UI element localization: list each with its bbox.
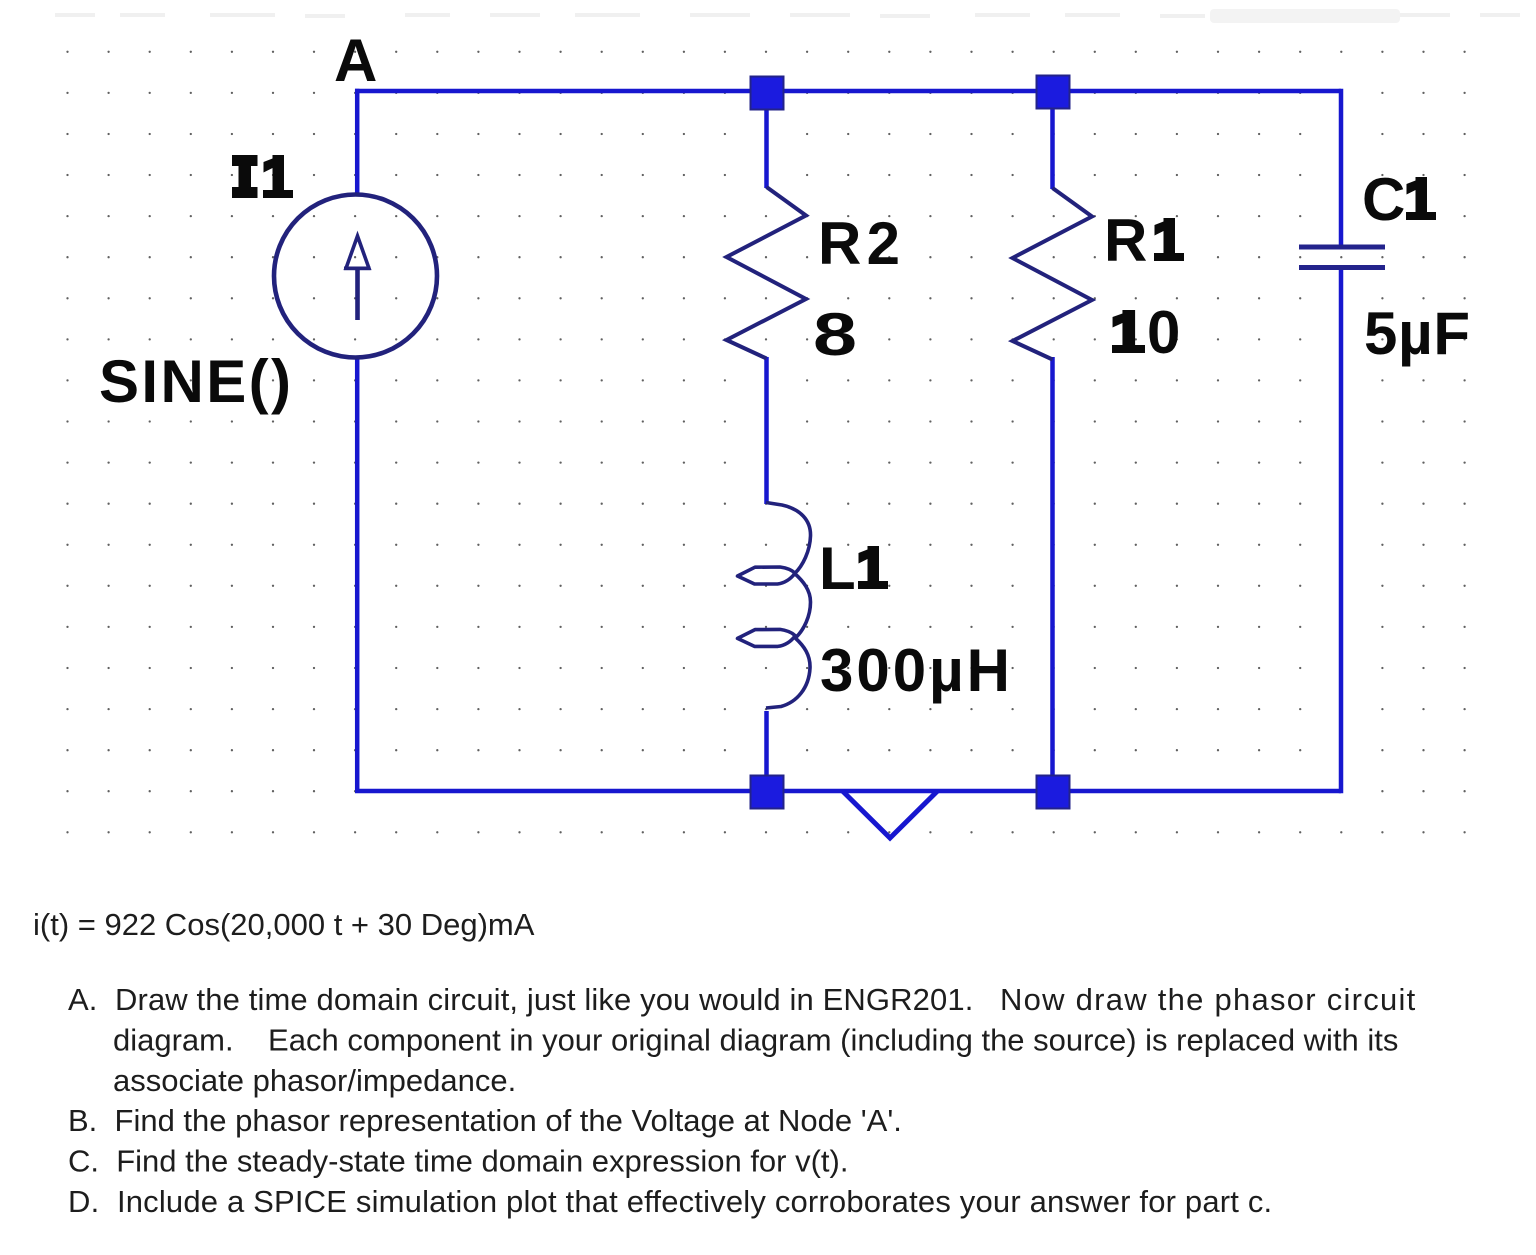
- junction node A / R1 top: [1037, 76, 1070, 109]
- svg-text:A. Draw the time domain circu: A. Draw the time domain circuit, just li…: [68, 982, 973, 1017]
- resistor R2 zigzag: [727, 187, 807, 359]
- label R2: [818, 210, 900, 277]
- svg-text:C: C: [1362, 166, 1405, 233]
- question item A line 1: [68, 982, 1417, 1017]
- wire: C1 top lead: [1339, 89, 1344, 245]
- svg-text:C. Find the steady-state time: C. Find the steady-state time domain exp…: [68, 1144, 848, 1179]
- resistor R1 zigzag: [1013, 188, 1093, 360]
- label L1: [819, 535, 888, 602]
- junction ground net / L1 bottom: [751, 776, 784, 809]
- svg-text:R2: R2: [818, 210, 900, 277]
- question item B: [68, 1103, 902, 1138]
- svg-text:5µF: 5µF: [1364, 300, 1470, 367]
- label R2 value 8: [813, 301, 857, 368]
- equation text i(t): [33, 907, 535, 942]
- wire: bottom rail (ground net): [355, 789, 1341, 794]
- label I1: [232, 155, 293, 198]
- svg-text:SINE(): SINE(): [99, 348, 291, 415]
- question item D: [68, 1184, 1272, 1219]
- label R1 value 10: [1112, 299, 1180, 366]
- label SINE(): [99, 348, 291, 415]
- svg-text:R: R: [1104, 207, 1147, 274]
- svg-text:A: A: [334, 27, 377, 94]
- node A label: [334, 27, 377, 94]
- question item C: [68, 1144, 848, 1179]
- wire: L1 bottom lead: [764, 711, 769, 791]
- wire: C1 bottom lead: [1339, 269, 1344, 793]
- svg-text:associate phasor/impedance.: associate phasor/impedance.: [113, 1063, 516, 1098]
- wire: R1 bottom lead: [1050, 357, 1055, 791]
- svg-text:300µH: 300µH: [820, 637, 1010, 704]
- wire: R2 to L1 connecting segment: [764, 357, 769, 504]
- wire: left vertical upper (node A to I1 top): [355, 89, 360, 196]
- svg-text:diagram. Each component in: diagram. Each component in your original…: [113, 1023, 1398, 1058]
- svg-text:8: 8: [813, 301, 857, 368]
- svg-text:L: L: [819, 535, 856, 602]
- wire: left vertical lower (I1 bottom to bottom rail): [355, 356, 360, 791]
- inductor L1 coil: [738, 503, 811, 709]
- svg-text:0: 0: [1147, 299, 1180, 366]
- junction ground net / R1 bottom: [1037, 776, 1070, 809]
- label R1: [1104, 207, 1184, 274]
- svg-text:B. Find the phasor representa: B. Find the phasor representation of the…: [68, 1103, 902, 1138]
- label C1 value 5uF: [1364, 300, 1470, 367]
- wire: R1 branch top lead: [1050, 91, 1055, 189]
- label C1: [1362, 166, 1436, 233]
- ground symbol: [843, 791, 938, 838]
- junction node A / R2 top: [751, 77, 784, 110]
- current source I1 arrow: [344, 236, 371, 320]
- wire: R2 branch top lead: [764, 91, 769, 188]
- question item A line 3: [113, 1063, 516, 1098]
- question item A line 2: [113, 1023, 1398, 1058]
- svg-text:Now draw the phasor circuit: Now draw the phasor circuit: [1000, 982, 1417, 1017]
- current source I1 circle: [274, 195, 437, 358]
- label L1 value 300uH: [820, 637, 1010, 704]
- capacitor C1 plates: [1299, 247, 1385, 268]
- wire: top rail node A: [355, 89, 1341, 94]
- svg-text:D. Include a SPICE simulation: D. Include a SPICE simulation plot that …: [68, 1184, 1272, 1219]
- svg-text:i(t) = 922 Cos(20,000 t + 30 D: i(t) = 922 Cos(20,000 t + 30 Deg)mA: [33, 907, 535, 942]
